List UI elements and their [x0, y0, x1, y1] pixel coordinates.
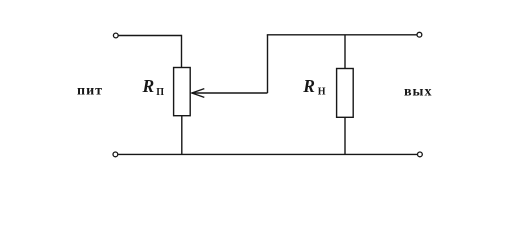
svg-text:Н: Н	[318, 87, 326, 98]
wiper arrow head	[192, 89, 204, 98]
svg-text:пит: пит	[77, 84, 103, 99]
wire potentiometer bottom vertical	[181, 116, 183, 155]
svg-text:R: R	[142, 76, 155, 96]
terminal input top	[113, 33, 118, 38]
wiper shaft wire	[192, 92, 268, 94]
wire top-left horizontal	[118, 35, 181, 37]
svg-text:П: П	[156, 87, 164, 98]
wire load top vertical	[344, 35, 346, 69]
svg-text:вых: вых	[404, 85, 433, 100]
resistor RН body	[337, 69, 354, 118]
terminal output top	[417, 32, 422, 37]
wiper vertical wire	[267, 35, 269, 93]
wire potentiometer top vertical	[181, 35, 183, 68]
resistor RП body	[174, 68, 191, 116]
wire bottom horizontal	[118, 153, 417, 155]
terminal input bottom	[113, 152, 118, 157]
wire top-right horizontal	[267, 34, 418, 36]
wire load bottom vertical	[344, 117, 346, 154]
terminal output bottom	[418, 152, 423, 157]
svg-text:R: R	[302, 76, 315, 96]
